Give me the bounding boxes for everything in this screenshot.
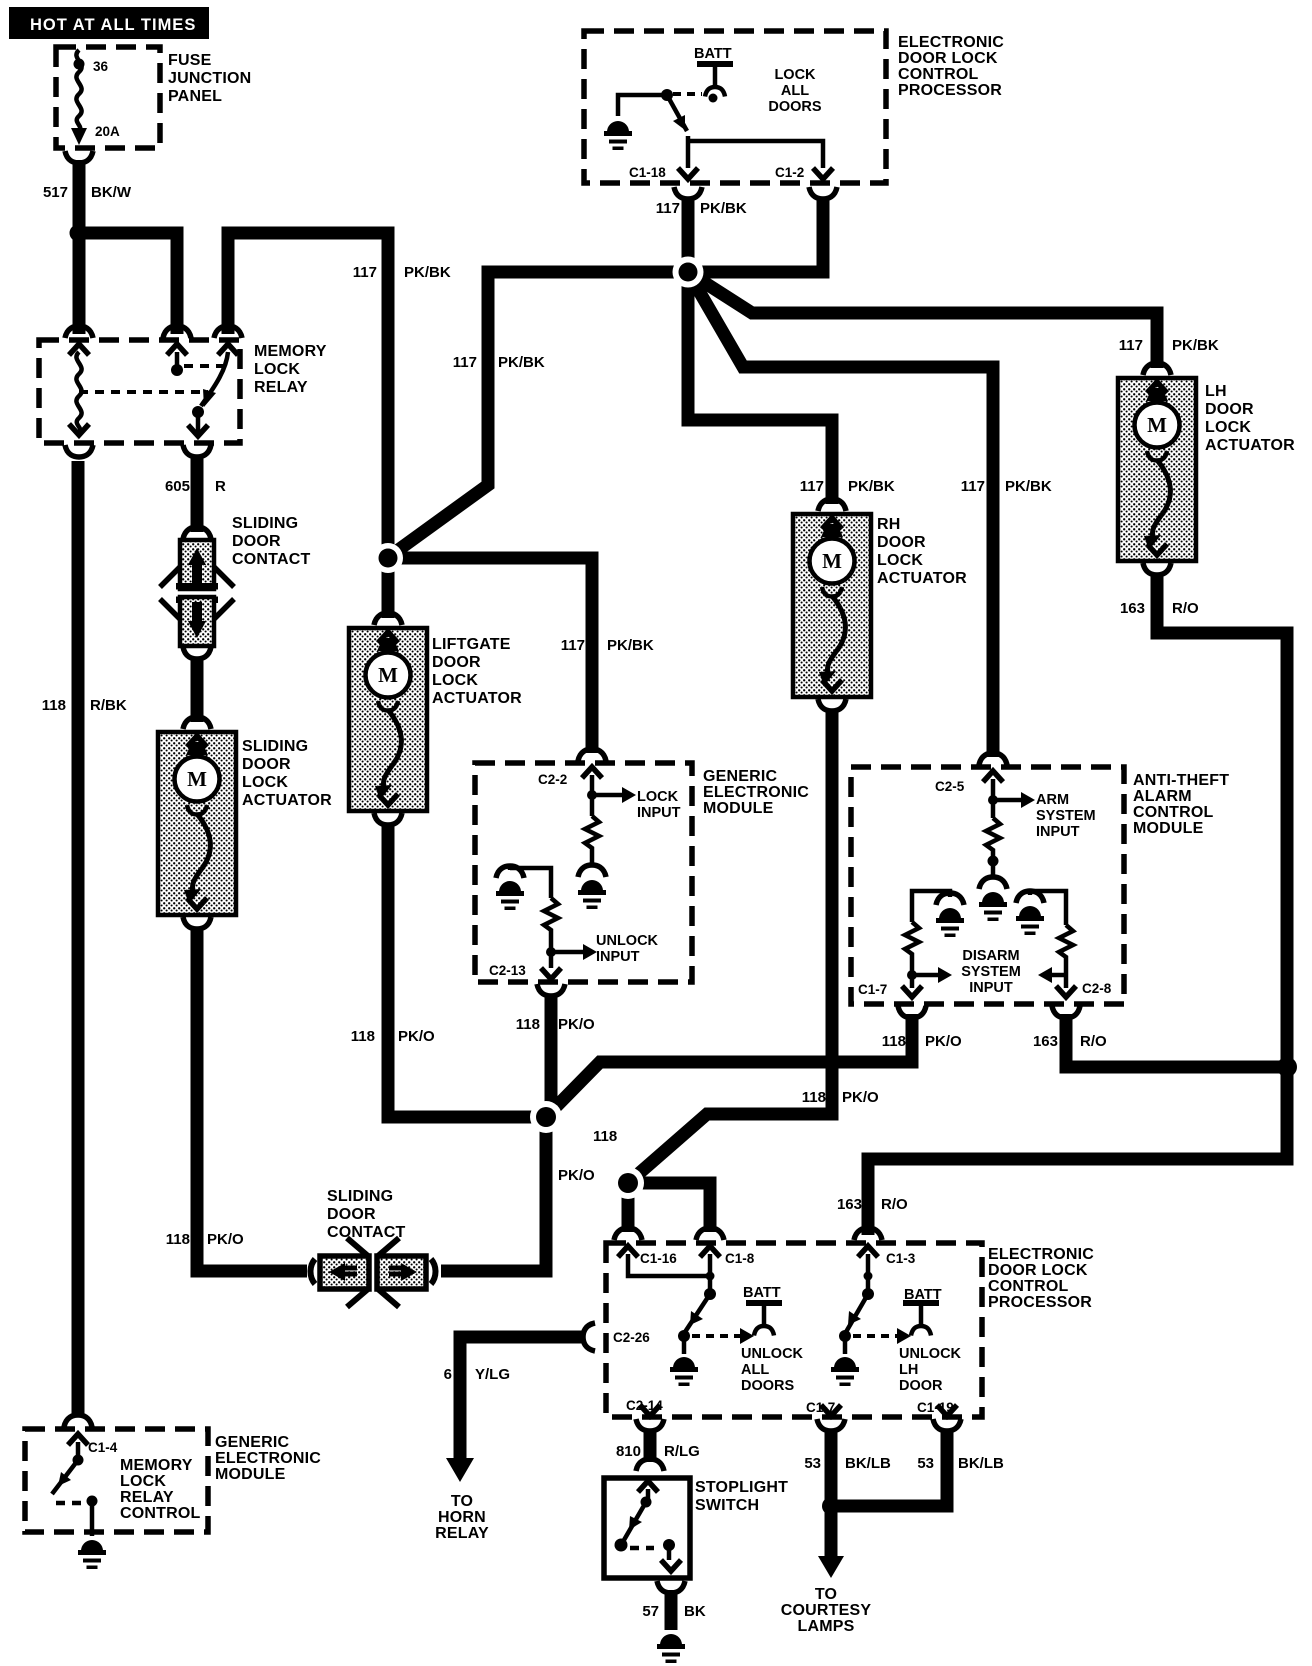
svg-text:LOCK: LOCK bbox=[637, 789, 679, 805]
svg-text:BATT: BATT bbox=[694, 46, 732, 62]
svg-text:C2-5: C2-5 bbox=[935, 779, 965, 794]
svg-text:R/O: R/O bbox=[1172, 600, 1199, 617]
svg-text:PK/BK: PK/BK bbox=[700, 200, 747, 217]
svg-text:RELAY: RELAY bbox=[254, 379, 308, 396]
svg-text:INPUT: INPUT bbox=[637, 805, 681, 821]
svg-text:MODULE: MODULE bbox=[1133, 820, 1204, 837]
svg-text:Y/LG: Y/LG bbox=[475, 1366, 510, 1383]
svg-text:PK/O: PK/O bbox=[925, 1033, 962, 1050]
svg-text:RELAY: RELAY bbox=[120, 1489, 174, 1506]
svg-text:DOOR: DOOR bbox=[899, 1378, 943, 1394]
svg-text:INPUT: INPUT bbox=[596, 949, 640, 965]
svg-text:PK/BK: PK/BK bbox=[404, 264, 451, 281]
svg-text:PK/BK: PK/BK bbox=[1172, 337, 1219, 354]
svg-text:TO: TO bbox=[451, 1493, 473, 1510]
svg-text:810: 810 bbox=[616, 1443, 641, 1460]
svg-text:PK/BK: PK/BK bbox=[498, 354, 545, 371]
svg-text:118: 118 bbox=[516, 1016, 540, 1033]
svg-text:LH: LH bbox=[1205, 383, 1227, 400]
svg-text:PK/O: PK/O bbox=[558, 1167, 595, 1184]
svg-text:DOOR: DOOR bbox=[232, 533, 281, 550]
svg-text:LH: LH bbox=[899, 1362, 918, 1378]
svg-text:ACTUATOR: ACTUATOR bbox=[877, 570, 967, 587]
svg-text:117: 117 bbox=[453, 354, 477, 371]
svg-text:DOOR LOCK: DOOR LOCK bbox=[898, 50, 998, 67]
svg-text:DOORS: DOORS bbox=[741, 1378, 795, 1394]
svg-text:ALL: ALL bbox=[741, 1362, 769, 1378]
svg-text:C1-4: C1-4 bbox=[88, 1440, 118, 1455]
svg-text:PK/O: PK/O bbox=[398, 1028, 435, 1045]
svg-text:118: 118 bbox=[593, 1128, 617, 1145]
svg-text:605: 605 bbox=[165, 478, 190, 495]
svg-text:BATT: BATT bbox=[743, 1285, 781, 1301]
svg-text:118: 118 bbox=[42, 697, 66, 714]
svg-text:ANTI-THEFT: ANTI-THEFT bbox=[1133, 772, 1229, 789]
svg-text:JUNCTION: JUNCTION bbox=[168, 70, 251, 87]
svg-text:SLIDING: SLIDING bbox=[232, 515, 298, 532]
svg-text:RH: RH bbox=[877, 516, 901, 533]
svg-text:UNLOCK: UNLOCK bbox=[596, 933, 659, 949]
svg-text:SYSTEM: SYSTEM bbox=[961, 964, 1021, 980]
svg-text:GENERIC: GENERIC bbox=[703, 768, 778, 785]
svg-text:C2-13: C2-13 bbox=[489, 963, 526, 978]
svg-text:R/O: R/O bbox=[881, 1196, 908, 1213]
svg-text:R/O: R/O bbox=[1080, 1033, 1107, 1050]
svg-text:DOOR: DOOR bbox=[432, 654, 481, 671]
svg-text:LIFTGATE: LIFTGATE bbox=[432, 636, 511, 653]
svg-text:CONTACT: CONTACT bbox=[327, 1224, 405, 1241]
svg-text:STOPLIGHT: STOPLIGHT bbox=[695, 1479, 788, 1496]
svg-text:BK/W: BK/W bbox=[91, 184, 132, 201]
svg-text:118: 118 bbox=[166, 1231, 190, 1248]
svg-text:TO: TO bbox=[815, 1586, 837, 1603]
svg-text:53: 53 bbox=[917, 1455, 934, 1472]
svg-text:117: 117 bbox=[1119, 337, 1143, 354]
svg-text:DOOR LOCK: DOOR LOCK bbox=[988, 1262, 1088, 1279]
svg-text:PROCESSOR: PROCESSOR bbox=[988, 1294, 1092, 1311]
svg-text:PK/BK: PK/BK bbox=[848, 478, 895, 495]
svg-text:MEMORY: MEMORY bbox=[254, 343, 327, 360]
svg-text:SYSTEM: SYSTEM bbox=[1036, 808, 1096, 824]
svg-text:ACTUATOR: ACTUATOR bbox=[242, 792, 332, 809]
svg-text:53: 53 bbox=[804, 1455, 821, 1472]
svg-text:LOCK: LOCK bbox=[432, 672, 478, 689]
svg-text:163: 163 bbox=[1120, 600, 1145, 617]
svg-text:ALARM: ALARM bbox=[1133, 788, 1192, 805]
svg-text:LOCK: LOCK bbox=[120, 1473, 166, 1490]
svg-text:PK/BK: PK/BK bbox=[607, 637, 654, 654]
svg-text:CONTACT: CONTACT bbox=[232, 551, 310, 568]
svg-text:SLIDING: SLIDING bbox=[242, 738, 308, 755]
svg-text:GENERIC: GENERIC bbox=[215, 1434, 290, 1451]
svg-text:LOCK: LOCK bbox=[242, 774, 288, 791]
svg-text:PK/BK: PK/BK bbox=[1005, 478, 1052, 495]
svg-text:C2-26: C2-26 bbox=[613, 1330, 650, 1345]
svg-text:117: 117 bbox=[656, 200, 680, 217]
svg-text:C1-7: C1-7 bbox=[858, 982, 887, 997]
svg-text:LOCK: LOCK bbox=[1205, 419, 1251, 436]
svg-text:SWITCH: SWITCH bbox=[695, 1497, 759, 1514]
svg-text:MODULE: MODULE bbox=[703, 800, 774, 817]
svg-text:C1-16: C1-16 bbox=[640, 1251, 677, 1266]
svg-text:C2-2: C2-2 bbox=[538, 772, 567, 787]
svg-text:CONTROL: CONTROL bbox=[120, 1505, 201, 1522]
svg-text:UNLOCK: UNLOCK bbox=[899, 1346, 962, 1362]
svg-text:CONTROL: CONTROL bbox=[1133, 804, 1214, 821]
svg-text:ACTUATOR: ACTUATOR bbox=[432, 690, 522, 707]
svg-text:6: 6 bbox=[444, 1366, 452, 1383]
svg-text:ELECTRONIC: ELECTRONIC bbox=[988, 1246, 1094, 1263]
svg-text:118: 118 bbox=[802, 1089, 826, 1106]
svg-text:FUSE: FUSE bbox=[168, 52, 212, 69]
svg-text:INPUT: INPUT bbox=[969, 980, 1013, 996]
svg-text:MODULE: MODULE bbox=[215, 1466, 286, 1483]
svg-text:LOCK: LOCK bbox=[774, 67, 816, 83]
svg-text:PANEL: PANEL bbox=[168, 88, 222, 105]
svg-text:ARM: ARM bbox=[1036, 792, 1069, 808]
svg-text:INPUT: INPUT bbox=[1036, 824, 1080, 840]
svg-text:PROCESSOR: PROCESSOR bbox=[898, 82, 1002, 99]
svg-text:117: 117 bbox=[961, 478, 985, 495]
svg-text:R: R bbox=[215, 478, 226, 495]
svg-text:ELECTRONIC: ELECTRONIC bbox=[703, 784, 809, 801]
svg-text:SLIDING: SLIDING bbox=[327, 1188, 393, 1205]
svg-text:R/LG: R/LG bbox=[664, 1443, 700, 1460]
svg-text:PK/O: PK/O bbox=[842, 1089, 879, 1106]
svg-text:BK/LB: BK/LB bbox=[958, 1455, 1004, 1472]
svg-text:117: 117 bbox=[561, 637, 585, 654]
svg-text:C1-2: C1-2 bbox=[775, 165, 804, 180]
svg-text:DOOR: DOOR bbox=[242, 756, 291, 773]
svg-text:C2-8: C2-8 bbox=[1082, 981, 1112, 996]
svg-text:LOCK: LOCK bbox=[877, 552, 923, 569]
svg-text:20A: 20A bbox=[95, 124, 120, 139]
svg-text:BK/LB: BK/LB bbox=[845, 1455, 891, 1472]
svg-text:117: 117 bbox=[353, 264, 377, 281]
svg-text:163: 163 bbox=[1033, 1033, 1058, 1050]
svg-text:DOOR: DOOR bbox=[327, 1206, 376, 1223]
svg-text:CONTROL: CONTROL bbox=[988, 1278, 1069, 1295]
svg-text:C1-3: C1-3 bbox=[886, 1251, 916, 1266]
svg-text:163: 163 bbox=[837, 1196, 862, 1213]
svg-text:MEMORY: MEMORY bbox=[120, 1457, 193, 1474]
svg-text:COURTESY: COURTESY bbox=[781, 1602, 872, 1619]
svg-text:LOCK: LOCK bbox=[254, 361, 300, 378]
svg-text:UNLOCK: UNLOCK bbox=[741, 1346, 804, 1362]
svg-text:118: 118 bbox=[882, 1033, 906, 1050]
svg-text:CONTROL: CONTROL bbox=[898, 66, 979, 83]
svg-text:517: 517 bbox=[43, 184, 68, 201]
svg-text:DOOR: DOOR bbox=[877, 534, 926, 551]
svg-text:C1-8: C1-8 bbox=[725, 1251, 755, 1266]
svg-text:LAMPS: LAMPS bbox=[798, 1618, 855, 1635]
svg-text:ACTUATOR: ACTUATOR bbox=[1205, 437, 1295, 454]
svg-text:ELECTRONIC: ELECTRONIC bbox=[898, 34, 1004, 51]
svg-text:ELECTRONIC: ELECTRONIC bbox=[215, 1450, 321, 1467]
svg-text:118: 118 bbox=[351, 1028, 375, 1045]
svg-text:DOORS: DOORS bbox=[768, 99, 822, 115]
svg-text:PK/O: PK/O bbox=[207, 1231, 244, 1248]
svg-text:DISARM: DISARM bbox=[962, 948, 1019, 964]
svg-text:C1-18: C1-18 bbox=[629, 165, 666, 180]
svg-text:R/BK: R/BK bbox=[90, 697, 127, 714]
svg-text:DOOR: DOOR bbox=[1205, 401, 1254, 418]
svg-text:HOT AT ALL TIMES: HOT AT ALL TIMES bbox=[30, 16, 196, 34]
svg-text:RELAY: RELAY bbox=[435, 1525, 489, 1542]
svg-text:ALL: ALL bbox=[781, 83, 809, 99]
svg-text:BK: BK bbox=[684, 1603, 706, 1620]
svg-text:HORN: HORN bbox=[438, 1509, 486, 1526]
svg-text:57: 57 bbox=[642, 1603, 659, 1620]
svg-text:36: 36 bbox=[93, 59, 109, 74]
svg-text:PK/O: PK/O bbox=[558, 1016, 595, 1033]
svg-text:117: 117 bbox=[800, 478, 824, 495]
